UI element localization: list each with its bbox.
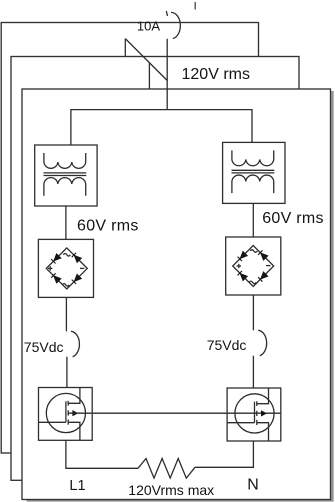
- Q1 source arrow: [73, 411, 78, 416]
- resistor R1 (load): [138, 459, 195, 479]
- diode D1 (BR1 top-left): [51, 254, 61, 264]
- wire: DC link to Q2: [252, 356, 254, 388]
- svg-text:75Vdc: 75Vdc: [207, 337, 247, 353]
- diode D6 (BR2 top-right): [258, 250, 268, 260]
- module sheet 1 (back stacked page): [1, 23, 258, 454]
- wire: main input line: [166, 39, 168, 110]
- diode D5 (BR2 top-left): [238, 252, 248, 262]
- diode D2 (BR1 top-right): [72, 253, 82, 262]
- svg-text:120Vrms max: 120Vrms max: [128, 482, 214, 498]
- BR2 plus mark: [237, 264, 241, 268]
- bridge rectifier BR2: [226, 237, 281, 295]
- svg-text:120V rms: 120V rms: [182, 66, 250, 83]
- module sheet 3 (front page, main circuit boundary): [22, 89, 331, 500]
- module sheet 2 (middle stacked page): [11, 57, 299, 481]
- BR2 AC mark (top): [250, 250, 257, 253]
- diode D8 (BR2 bottom-right): [258, 272, 268, 282]
- BR1 plus mark: [48, 266, 52, 270]
- wire: BR1 to DC link (left): [65, 297, 67, 331]
- MOSFET Q1: [39, 388, 93, 441]
- diode D4 (BR1 bottom-right): [72, 275, 82, 285]
- BR2 AC mark (bottom): [249, 281, 256, 284]
- wire: T2 secondary to BR2: [252, 203, 254, 237]
- current direction arrow (right DC link): [258, 330, 266, 355]
- svg-text:10A: 10A: [137, 19, 160, 34]
- bridge rectifier BR1: [38, 239, 93, 297]
- MOSFET Q2: [227, 388, 281, 441]
- wire: Q1 drain to L1 node: [66, 440, 138, 468]
- circuit breaker CB1 (10A): [125, 39, 167, 89]
- diode D3 (BR1 bottom-left): [51, 273, 61, 283]
- BR2 minus mark: [266, 265, 270, 267]
- wire: top distribution bus: [71, 110, 252, 145]
- transformer T2: [223, 142, 285, 203]
- diode D7 (BR2 bottom-left): [238, 271, 248, 281]
- svg-text:60V rms: 60V rms: [262, 210, 324, 227]
- svg-text:75Vdc: 75Vdc: [24, 339, 64, 355]
- wire: DC link to Q1: [66, 357, 68, 388]
- Q2 source arrow: [261, 411, 266, 416]
- current direction arrow (top): [166, 11, 180, 39]
- svg-text:N: N: [247, 476, 259, 493]
- BR1 AC mark (bottom): [62, 284, 69, 287]
- wire: resistor to Q2 / N node: [195, 441, 253, 467]
- BR1 minus mark: [80, 267, 84, 269]
- BR1 AC mark (top): [63, 254, 70, 257]
- module sheet 3 drop shadow: [27, 91, 334, 502]
- current direction arrow (left DC link): [71, 331, 79, 356]
- svg-text:60V rms: 60V rms: [77, 218, 139, 235]
- wire: BR2 to DC link (right): [252, 295, 254, 330]
- wire: T1 secondary to BR1: [65, 206, 67, 239]
- svg-text:L1: L1: [69, 478, 85, 494]
- svg-text:I: I: [194, 1, 197, 13]
- wire: Q1 source to Q2 gate: [68, 412, 281, 414]
- transformer T1: [35, 145, 97, 206]
